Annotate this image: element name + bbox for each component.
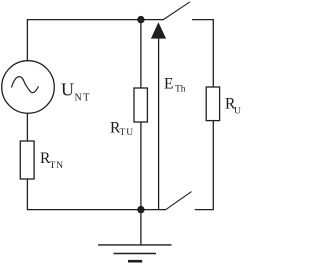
wire: right branch vertical upper <box>212 20 214 88</box>
label U_NT <box>61 80 91 104</box>
wire: top node to resistor R_TU <box>140 21 142 88</box>
wire: source bottom to resistor R_TN <box>26 113 28 141</box>
wire: top horizontal from corner through node to switch <box>27 19 164 21</box>
wire: bottom horizontal from left corner through node to switch <box>27 209 166 211</box>
svg-text:NT: NT <box>75 92 91 103</box>
svg-text:U: U <box>234 107 241 117</box>
switch S1 blade (top, open) <box>164 2 191 20</box>
wire: right branch vertical lower <box>212 121 214 210</box>
label R_TN <box>40 150 64 171</box>
svg-text:TN: TN <box>50 161 65 171</box>
svg-text:TU: TU <box>120 128 135 138</box>
node A (top junction dot) <box>137 16 144 23</box>
label R_U <box>225 96 241 117</box>
ground bar 3 <box>128 260 142 263</box>
arrow head of E_Th (points up) <box>151 22 166 38</box>
AC source U_NT circle <box>2 61 55 114</box>
AC source sine symbol <box>12 77 39 93</box>
wire: top right segment after switch <box>192 19 214 21</box>
ground bar 1 <box>98 244 172 246</box>
resistor R_TN body <box>20 141 34 179</box>
wire: E_Th source line <box>158 38 160 210</box>
svg-text:U: U <box>61 80 74 100</box>
wire: R_TN bottom to bottom-left corner <box>26 179 28 210</box>
svg-text:E: E <box>164 76 173 93</box>
wire: bottom node to ground <box>140 211 142 245</box>
switch S2 blade (bottom, open) <box>166 192 192 210</box>
label R_TU <box>110 120 134 139</box>
resistor R_TU body <box>134 88 147 122</box>
wire: R_TU bottom to bottom node <box>140 122 142 208</box>
wire: bottom right segment to switch <box>195 209 214 211</box>
wire: source top to top-left corner <box>26 20 28 61</box>
label E_Th <box>164 76 186 95</box>
node B (bottom junction dot) <box>137 206 144 213</box>
ground bar 2 <box>114 253 157 255</box>
resistor R_U body <box>206 87 219 121</box>
svg-text:Th: Th <box>175 85 186 95</box>
